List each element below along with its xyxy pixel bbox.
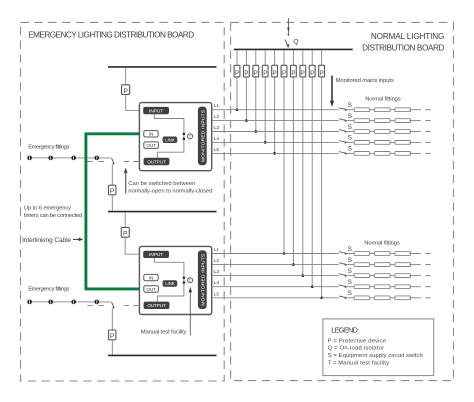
normal fitting 3 (circuit 8): [395, 274, 411, 278]
normal fitting 3 (circuit 10): [395, 296, 411, 300]
svg-text:S: S: [348, 113, 352, 120]
junction mains circuit 7 to L2: [292, 263, 295, 266]
lighting circuit 2 feed wire: [212, 120, 339, 122]
mains circuit 10 drop wire: [321, 50, 323, 298]
continuation wire (circuit 8): [409, 275, 421, 277]
svg-text:S: S: [348, 102, 352, 109]
protective device P (mains circuit 10): [319, 65, 325, 77]
fitting link wire (circuit 2): [390, 120, 395, 122]
continuation wire (circuit 2): [409, 120, 421, 122]
svg-text:Emergency fittings: Emergency fittings: [28, 145, 69, 151]
svg-text:S: S: [348, 268, 352, 275]
svg-text:Monitored mains inputs: Monitored mains inputs: [336, 78, 394, 84]
lighting circuit 10 feed wire: [212, 297, 339, 299]
U1 link contact dots: [183, 133, 186, 136]
svg-text:P: P: [244, 71, 248, 77]
mains circuit 5 drop wire: [274, 50, 276, 153]
protective device P1: [122, 85, 130, 95]
wire P1 to module U1 INPUT: [126, 94, 144, 110]
monitoring module U2 body: [139, 246, 211, 314]
U2 OUTPUT pill: [144, 302, 169, 309]
svg-text:P = Protective device: P = Protective device: [328, 338, 387, 344]
svg-text:S: S: [348, 124, 352, 131]
svg-text:L2: L2: [214, 258, 220, 264]
fitting link wire (circuit 10): [370, 297, 375, 299]
U1 OUT pill: [144, 142, 159, 149]
emergency fitting 2 (circuit 1): [48, 156, 53, 161]
svg-text:T = Manual test facility: T = Manual test facility: [328, 361, 390, 367]
continuation dash (circuit 9): [425, 286, 430, 288]
continuation wire (circuit 6): [409, 253, 421, 255]
busbar B2 (middle busbar): [108, 211, 217, 213]
svg-text:LEGEND: LEGEND: [331, 326, 357, 335]
incoming supply wire: [287, 18, 290, 36]
mains circuit 3 drop wire: [255, 50, 257, 131]
normal fitting 3 (circuit 7): [395, 263, 411, 267]
wire P to busbar B2: [111, 195, 113, 212]
normal fitting 1 (circuit 4): [354, 141, 370, 145]
svg-text:INPUT: INPUT: [149, 252, 163, 258]
U1 LINK pill: [163, 137, 177, 143]
svg-text:P: P: [123, 231, 128, 238]
fitting link wire (circuit 6): [370, 253, 375, 255]
emergency fitting 1 (circuit 2): [27, 300, 32, 305]
wire switch to fittings (circuit 10): [346, 297, 354, 299]
normal fitting 3 (circuit 6): [395, 252, 411, 256]
U1 internal wire INPUT-LINK-OUTPUT: [154, 114, 184, 158]
annotation: up to 6 emergency timers: [24, 206, 82, 220]
junction mains circuit 2 to L2: [245, 119, 248, 122]
junction mains circuit 9 to L4: [311, 285, 314, 288]
svg-text:MONITORED INPUTS: MONITORED INPUTS: [200, 109, 206, 162]
junction mains circuit 5 to L5: [273, 152, 276, 155]
continuation wire (circuit 5): [409, 152, 421, 154]
fitting link wire (circuit 7): [390, 264, 395, 266]
svg-text:P: P: [282, 71, 286, 77]
U2 OUTPUT wire (dashed): [87, 304, 104, 306]
svg-text:INPUT: INPUT: [149, 108, 163, 114]
svg-text:P: P: [110, 333, 115, 340]
wire switch to fittings (circuit 3): [346, 131, 354, 133]
svg-text:DISTRIBUTION BOARD: DISTRIBUTION BOARD: [362, 43, 444, 52]
on-load isolator Q blade: [285, 39, 290, 48]
continuation dash (circuit 4): [425, 141, 430, 143]
fitting link wire (circuit 8): [390, 275, 395, 277]
normal fitting 2 (circuit 4): [375, 141, 391, 145]
svg-text:Interlinking Cable: Interlinking Cable: [22, 237, 71, 244]
mains circuit 1 drop wire: [236, 50, 238, 109]
U1 MONITORED INPUTS pill: [198, 107, 206, 165]
protective device P (mains circuit 8): [300, 65, 306, 77]
svg-text:LINK: LINK: [165, 281, 175, 286]
protective device P (emergency circuit 2): [109, 330, 116, 340]
annotation: interlinking cable: [22, 237, 83, 244]
U2 LINK pill: [163, 281, 177, 287]
lighting circuit 7 feed wire: [212, 264, 339, 266]
svg-text:MONITORED INPUTS: MONITORED INPUTS: [200, 253, 206, 306]
svg-text:P: P: [110, 188, 115, 195]
protective device P (mains circuit 6): [281, 65, 287, 77]
monitoring module U1 body: [139, 103, 211, 171]
svg-text:IN: IN: [149, 132, 154, 138]
fitting link wire (circuit 3): [370, 131, 375, 133]
supply circuit switch S (circuit 2): [339, 113, 352, 122]
wire switch to fittings (circuit 9): [346, 286, 354, 288]
svg-text:Q: Q: [293, 38, 298, 45]
continuation dash (circuit 8): [425, 275, 430, 277]
fitting link wire (circuit 9): [390, 286, 395, 288]
wire switch to fittings (circuit 1): [346, 109, 354, 111]
svg-text:OUT: OUT: [146, 143, 156, 148]
svg-text:L1: L1: [214, 103, 220, 109]
mains circuit 8 drop wire: [302, 50, 304, 275]
busbar B1 (upper supply busbar): [108, 66, 217, 68]
supply circuit switch S (circuit 3): [339, 124, 352, 133]
supply circuit switch S (circuit 4): [339, 135, 352, 144]
fitting link wire (circuit 1): [370, 109, 375, 111]
normal fitting 1 (circuit 2): [354, 119, 370, 123]
svg-text:S: S: [348, 135, 352, 142]
svg-text:S = Equipment supply circuit: S = Equipment supply circuit switch: [328, 353, 423, 359]
junction mains circuit 10 to L5: [320, 296, 323, 299]
busbar B4 (normal board busbar): [234, 48, 353, 50]
continuation dash (circuit 1): [425, 109, 430, 111]
emergency fitting 3 (circuit 1): [71, 156, 76, 161]
U1 OUTPUT wire (dashed, normally-open): [87, 161, 104, 163]
svg-text:timers can be connected: timers can be connected: [24, 213, 82, 219]
svg-text:L1: L1: [214, 247, 220, 253]
legend box: [323, 319, 434, 376]
normal fitting 1 (circuit 6): [354, 252, 370, 256]
emergency fitting 1 (circuit 1): [27, 156, 32, 161]
continuation dash (circuit 5): [425, 152, 430, 154]
mains circuit 6 drop wire: [283, 50, 285, 253]
wire switch to P (circuit 2): [111, 309, 113, 330]
supply circuit switch S (circuit 9): [339, 279, 352, 288]
U2 IN pill: [144, 274, 158, 281]
changeover switch blade (circuit 2): [111, 302, 114, 308]
svg-text:S: S: [348, 246, 352, 253]
normal fitting 2 (circuit 1): [375, 108, 391, 112]
svg-text:OUTPUT: OUTPUT: [147, 159, 166, 164]
U2 internal wire INPUT-LINK-OUTPUT: [154, 258, 184, 302]
fitting link wire (circuit 5): [370, 152, 375, 154]
svg-text:normally-open to normally-clos: normally-open to normally-closed: [128, 189, 212, 195]
svg-text:IN: IN: [149, 275, 154, 281]
normal fitting 3 (circuit 3): [395, 130, 411, 134]
wire P2 to module U2 INPUT: [125, 237, 144, 254]
svg-text:S: S: [348, 279, 352, 286]
protective device P (mains circuit 2): [244, 65, 250, 77]
svg-text:P: P: [320, 71, 324, 77]
junction mains circuit 6 to L1: [283, 252, 286, 255]
junction mains circuit 4 to L4: [264, 141, 267, 144]
protective device P (mains circuit 1): [234, 65, 240, 77]
svg-text:Up to 6 emergency: Up to 6 emergency: [24, 206, 71, 212]
busbar B3 (lower busbar): [108, 354, 217, 356]
svg-text:S: S: [348, 290, 352, 297]
fitting link wire (circuit 4): [370, 141, 375, 143]
fitting link wire (circuit 8): [370, 275, 375, 277]
svg-text:P: P: [263, 71, 267, 77]
continuation wire (circuit 9): [409, 286, 421, 288]
normal lighting distribution board enclosure: [231, 22, 454, 380]
mains circuit 2 drop wire: [245, 50, 247, 120]
wire switch to P (circuit 1): [111, 165, 113, 186]
continuation wire (circuit 10): [409, 297, 421, 299]
supply circuit switch S (circuit 8): [339, 268, 352, 277]
protective device P (mains circuit 7): [291, 65, 297, 77]
wire switch to fittings (circuit 4): [346, 141, 354, 143]
wire P to busbar B3: [111, 340, 113, 356]
lighting circuit 9 feed wire: [212, 286, 339, 288]
annotation arrow (changeover switch): [124, 168, 128, 194]
normal fitting 3 (circuit 5): [395, 152, 411, 156]
emergency fitting 4 (circuit 1): [95, 156, 100, 161]
lighting circuit 6 feed wire: [212, 253, 339, 255]
normal fitting 3 (circuit 9): [395, 285, 411, 289]
svg-text:L2: L2: [214, 114, 220, 120]
normal fitting 2 (circuit 2): [375, 119, 391, 123]
svg-text:Q = On-load isolator: Q = On-load isolator: [328, 346, 385, 352]
manual test annotation arrow: [189, 287, 193, 335]
fitting link wire (circuit 4): [390, 141, 395, 143]
fitting link wire (circuit 9): [370, 286, 375, 288]
wire switch to fittings (circuit 2): [346, 120, 354, 122]
svg-text:S: S: [348, 257, 352, 264]
normal fitting 3 (circuit 1): [395, 108, 411, 112]
fitting link wire (circuit 5): [390, 152, 395, 154]
protective device P (mains circuit 4): [262, 65, 268, 77]
emergency fitting 4 (circuit 2): [95, 300, 100, 305]
svg-text:S: S: [348, 146, 352, 153]
continuation wire (circuit 3): [409, 131, 421, 133]
svg-text:P: P: [301, 71, 305, 77]
U2 MONITORED INPUTS pill: [198, 251, 206, 309]
normal fitting 1 (circuit 8): [354, 274, 370, 278]
continuation wire (circuit 4): [409, 141, 421, 143]
svg-text:Normal fittings: Normal fittings: [364, 240, 400, 246]
protective device P (mains circuit 3): [253, 65, 259, 77]
svg-text:L3: L3: [214, 269, 220, 275]
normal fitting 3 (circuit 2): [395, 119, 411, 123]
continuation dash (circuit 2): [425, 120, 430, 122]
supply circuit switch S (circuit 10): [339, 290, 352, 299]
protective device P (mains circuit 9): [309, 65, 315, 77]
U1 OUTPUT pill: [144, 158, 169, 165]
svg-text:OUTPUT: OUTPUT: [147, 303, 166, 308]
emergency fitting 3 (circuit 2): [71, 300, 76, 305]
normal fitting 1 (circuit 1): [354, 108, 370, 112]
continuation wire (circuit 1): [409, 109, 421, 111]
U2 manual test terminal T: [188, 278, 193, 283]
U2 OUT pill: [144, 286, 159, 293]
svg-text:L3: L3: [214, 125, 220, 131]
U1 manual test terminal T: [188, 134, 193, 139]
emergency fittings wire (circuit 1): [27, 157, 110, 159]
normal fitting 2 (circuit 5): [375, 152, 391, 156]
junction mains circuit 1 to L1: [236, 108, 239, 111]
svg-text:P: P: [291, 71, 295, 77]
U2 INPUT pill: [144, 251, 169, 258]
normal fitting 1 (circuit 7): [354, 263, 370, 267]
svg-text:Normal fittings: Normal fittings: [365, 96, 401, 102]
normal fitting 2 (circuit 3): [375, 130, 391, 134]
continuation wire (circuit 7): [409, 264, 421, 266]
svg-text:L4: L4: [214, 280, 220, 286]
mains circuit 7 drop wire: [292, 50, 294, 264]
continuation dash (circuit 6): [425, 253, 430, 255]
emergency fitting 2 (circuit 2): [48, 300, 53, 305]
wire switch to fittings (circuit 8): [346, 275, 354, 277]
normal fitting 2 (circuit 10): [375, 296, 391, 300]
svg-text:P: P: [254, 71, 258, 77]
svg-text:LINK: LINK: [165, 137, 175, 142]
supply circuit switch S (circuit 1): [339, 102, 352, 111]
protective device P (mains circuit 5): [272, 65, 278, 77]
wire busbar B2 to P2: [124, 212, 126, 227]
fitting link wire (circuit 2): [370, 120, 375, 122]
lighting circuit 1 feed wire: [212, 109, 339, 111]
normal fitting 3 (circuit 4): [395, 141, 411, 145]
svg-text:EMERGENCY LIGHTING DISTRIBUTIO: EMERGENCY LIGHTING DISTRIBUTION BOARD: [28, 30, 194, 39]
lighting circuit 5 feed wire: [212, 152, 339, 154]
svg-text:NORMAL LIGHTING: NORMAL LIGHTING: [371, 32, 444, 41]
fitting link wire (circuit 1): [390, 109, 395, 111]
continuation dash (circuit 10): [425, 297, 430, 299]
normal fitting 1 (circuit 10): [354, 296, 370, 300]
normal fitting 1 (circuit 3): [354, 130, 370, 134]
supply circuit switch S (circuit 5): [339, 146, 352, 155]
U1 INPUT pill: [144, 107, 169, 114]
emergency fittings wire (circuit 2): [27, 301, 110, 303]
junction mains circuit 8 to L3: [301, 274, 304, 277]
svg-text:L5: L5: [214, 147, 220, 153]
continuation dash (circuit 3): [425, 131, 430, 133]
changeover switch blade (circuit 1): [111, 158, 114, 164]
normal fitting 2 (circuit 7): [375, 263, 391, 267]
interlinking cable (green): [86, 134, 139, 289]
mains circuit 4 drop wire: [264, 50, 266, 142]
wire switch to fittings (circuit 5): [346, 152, 354, 154]
svg-text:P: P: [123, 88, 128, 95]
svg-text:OUT: OUT: [146, 287, 156, 292]
normal fitting 2 (circuit 6): [375, 252, 391, 256]
lighting circuit 8 feed wire: [212, 275, 339, 277]
fitting link wire (circuit 3): [390, 131, 395, 133]
svg-text:P: P: [235, 71, 239, 77]
svg-text:Can be switched between: Can be switched between: [128, 181, 195, 187]
protective device P2: [121, 227, 129, 237]
normal fitting 2 (circuit 9): [375, 285, 391, 289]
emergency lighting distribution board enclosure: [21, 22, 225, 381]
right board title: [362, 32, 444, 52]
normal fitting 1 (circuit 9): [354, 285, 370, 289]
annotation: can be switched: [128, 181, 212, 194]
fitting link wire (circuit 10): [390, 297, 395, 299]
normal fitting 1 (circuit 5): [354, 152, 370, 156]
wire switch to fittings (circuit 7): [346, 264, 354, 266]
svg-text:P: P: [273, 71, 277, 77]
fitting link wire (circuit 6): [390, 253, 395, 255]
lighting circuit 4 feed wire: [212, 141, 339, 143]
svg-text:P: P: [310, 71, 314, 77]
supply circuit switch S (circuit 7): [339, 257, 352, 266]
monitored mains arrow: [330, 76, 334, 107]
svg-text:Emergency fittings: Emergency fittings: [28, 287, 69, 293]
svg-text:L4: L4: [214, 136, 220, 142]
U2 link contact dots: [183, 276, 186, 279]
normal fitting 2 (circuit 8): [375, 274, 391, 278]
mains circuit 9 drop wire: [311, 50, 313, 287]
svg-text:Manual test facility: Manual test facility: [141, 329, 187, 335]
fitting link wire (circuit 7): [370, 264, 375, 266]
wire busbar B1 to P1: [125, 68, 127, 85]
U1 IN pill: [144, 131, 158, 138]
svg-text:L5: L5: [214, 291, 220, 297]
protective device P (emergency circuit 1): [109, 185, 116, 195]
lighting circuit 3 feed wire: [212, 131, 339, 133]
supply circuit switch S (circuit 6): [339, 246, 352, 255]
junction mains circuit 3 to L3: [254, 130, 257, 133]
continuation dash (circuit 7): [425, 264, 430, 266]
wire switch to fittings (circuit 6): [346, 253, 354, 255]
